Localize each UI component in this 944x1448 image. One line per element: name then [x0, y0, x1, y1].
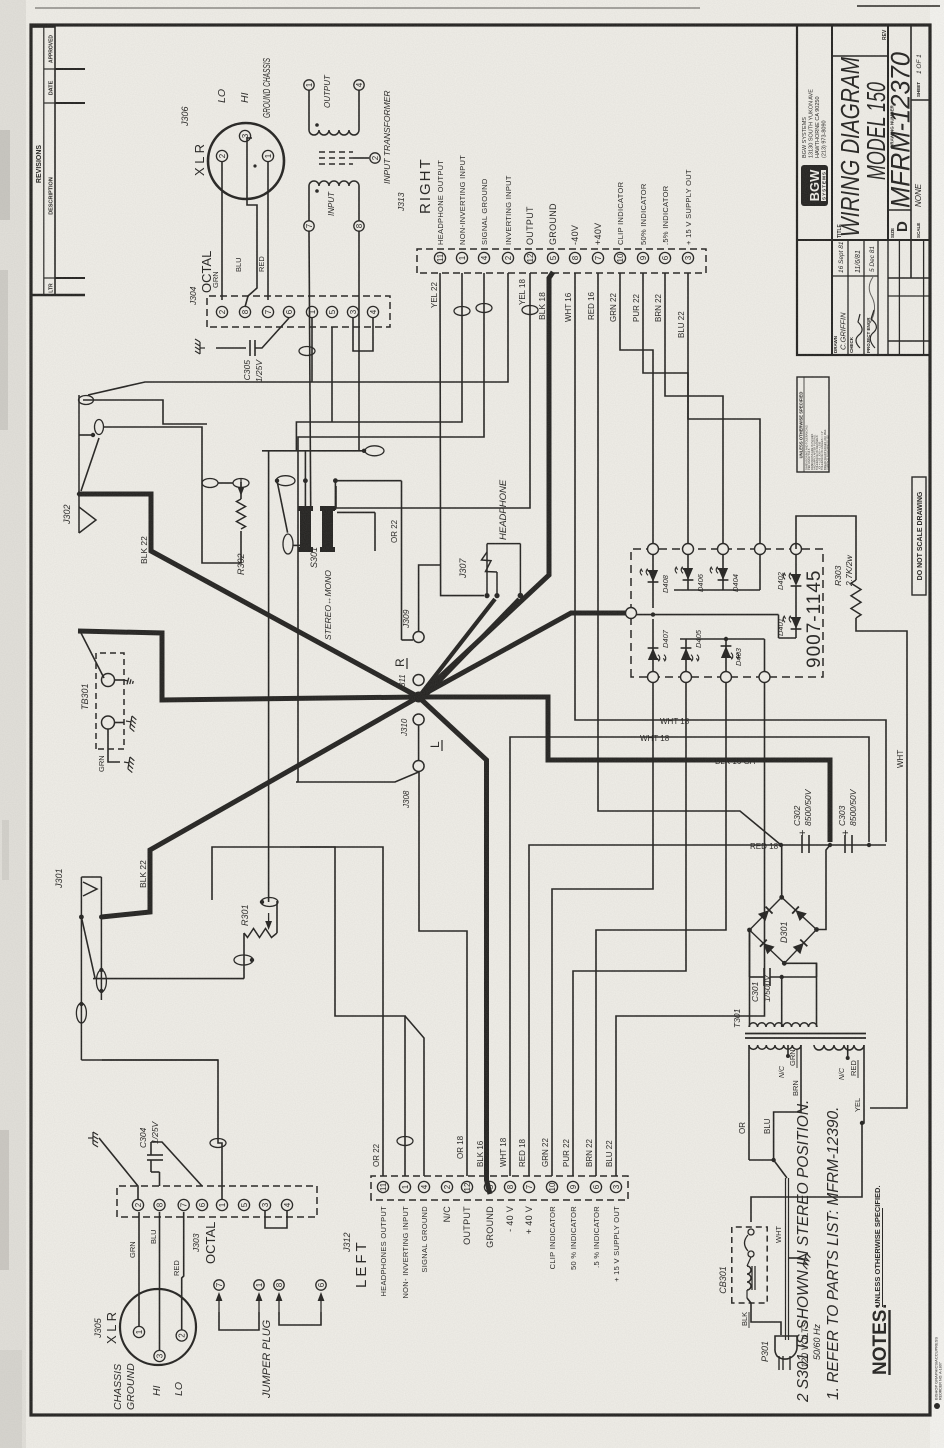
wire thick BLK22 star to J301: [101, 697, 418, 917]
switch S301 wafer A: [300, 509, 311, 549]
wire S301 to J313 pin7: [309, 231, 311, 509]
title block signature rows: [847, 240, 849, 355]
title block outline: [797, 25, 930, 355]
LED array center rail: [631, 614, 779, 616]
LED D404: [722, 555, 724, 591]
LED bottom exit wires: [796, 612, 823, 614]
J303 pin 1: [216, 1199, 227, 1210]
transformer J313 output winding: [309, 130, 359, 135]
left strip pin 11: [377, 1181, 388, 1192]
terminal strip LEFT outline: [371, 1176, 628, 1200]
wire J310 to J308: [418, 725, 420, 761]
right strip pin 1: [456, 252, 467, 263]
left strip pin 7: [523, 1181, 534, 1192]
wire TB301 tap diagonal: [80, 631, 104, 678]
J301 sleeve lug: [76, 1003, 86, 1023]
J302 switch arm: [81, 438, 99, 491]
R301 bottom lug: [243, 933, 245, 979]
T301 secondary center tap: [781, 977, 783, 1027]
title block lower grid: [898, 240, 900, 355]
LED D403: [725, 639, 727, 672]
connector J305 XLR: [120, 1289, 196, 1365]
LED D408: [652, 555, 654, 609]
wire left pin8 WHT18 bus: [510, 737, 869, 1176]
J304 pin1 lug chain: [311, 318, 313, 382]
wire right pin10 GRN22 to LED: [620, 273, 653, 549]
LED D402: [795, 555, 797, 575]
wire J302 tip chain: [83, 400, 207, 424]
J303 chassis ground: [99, 1138, 138, 1199]
revision table: [31, 27, 55, 295]
jumper plug arrows: [216, 1292, 223, 1312]
revision table row ticks: [55, 68, 85, 70]
S301 pole A: [304, 451, 306, 509]
capacitor C301: [749, 930, 751, 977]
J313 case pin 2: [353, 157, 369, 159]
left strip pin 8: [504, 1181, 515, 1192]
wire S301 pole B to J309 OR22: [401, 481, 403, 640]
circuit breaker CB301 outline: [732, 1227, 767, 1303]
R301 top lug: [276, 901, 278, 933]
T301 YEL lead: [863, 1045, 865, 1108]
jack J309: [413, 632, 424, 643]
TB301 GRN lead: [108, 729, 120, 762]
wire left pin7 RED18 bus: [529, 845, 886, 1176]
jumper plug pins: [214, 1280, 224, 1290]
J304 pin 3: [347, 306, 358, 317]
wire left pin9 PUR22 from LED: [573, 677, 686, 1176]
wire D301 positive output: [781, 845, 783, 897]
right strip pin 5: [547, 252, 558, 263]
T301 secondary winding: [749, 1023, 817, 1027]
J304 pin 6: [283, 306, 294, 317]
WHT cord wire: [785, 1178, 787, 1340]
R301 wiper arrow: [265, 913, 272, 930]
J304 pins 3-4 jumper: [353, 318, 373, 351]
TB301 ground 1: [115, 679, 125, 681]
S301 moving arm lug: [276, 476, 295, 486]
S301 arm: [277, 481, 288, 533]
jack J311: [413, 675, 424, 686]
P301 prongs: [778, 1356, 780, 1370]
T301 OR lead: [748, 1045, 750, 1160]
left strip pin 6: [590, 1181, 601, 1192]
T301 GRN tap: [787, 1045, 789, 1056]
scan edge smudges: [0, 130, 10, 220]
T301 primary winding B: [814, 1045, 864, 1050]
S301 lug: [365, 446, 384, 456]
left strip pin 10: [546, 1181, 557, 1192]
T301 BRN tap: [800, 1045, 802, 1089]
right strip pin 7: [592, 252, 603, 263]
wire right pin6 BRN22 to LED: [665, 273, 723, 549]
wire thick BLK16 star to left strip pin 5: [419, 697, 490, 1194]
left strip pin 4: [418, 1181, 429, 1192]
right strip pin 8: [569, 252, 580, 263]
R302 wires: [202, 483, 241, 563]
plug P301: [775, 1336, 797, 1359]
wire right pin7 RED16 bus: [598, 273, 781, 845]
J304 pin 2: [216, 306, 227, 317]
wire thick star to PSU ground bus BLK 16 GA: [421, 697, 830, 842]
resistor R303: [796, 516, 856, 580]
LED array cathode rail: [674, 589, 760, 591]
LED D407: [652, 619, 654, 672]
CB301 contacts: [748, 1229, 754, 1235]
LED array node circles: [648, 544, 659, 555]
S301 feed bus: [262, 450, 365, 452]
paper top edge line: [35, 7, 700, 9]
wire left pin4 run: [405, 1016, 424, 1176]
J313 input pin 8: [354, 221, 364, 231]
connector J303 octal outline: [117, 1186, 317, 1217]
LED D406: [687, 555, 689, 591]
wire J309 to YEL22: [419, 565, 440, 632]
jack J308: [413, 761, 424, 772]
right strip pin 10: [614, 252, 625, 263]
TB301 terminal 2: [102, 716, 115, 729]
J304 pin 5: [326, 306, 337, 317]
wire RED J306 pin1 to J304 pin7: [267, 162, 269, 300]
wire right area vertical: [88, 382, 248, 395]
right strip pin 2: [502, 252, 513, 263]
J313 output pin 1: [304, 80, 314, 90]
wire left pin3 BLU22 from LED: [616, 677, 765, 1176]
LED D401: [795, 617, 797, 638]
wire J313 pin8 to S301 lug: [358, 231, 360, 451]
jumper plug links: [219, 1312, 259, 1330]
wire GRN J305 pin1 to J303 pin2: [138, 1212, 140, 1326]
J303 pin 5: [238, 1199, 249, 1210]
scan noise overlay: [0, 0, 1, 1]
wire right pin2 inverting input: [248, 273, 508, 382]
wire R301 wiper bus to S301: [268, 451, 270, 847]
left strip pin 1: [399, 1181, 410, 1192]
wire thick pair star to J307: [419, 599, 495, 697]
BGW logo: [801, 165, 828, 206]
OR to BLU junction: [749, 1089, 801, 1160]
S301 wafer B hook: [337, 511, 375, 513]
star junction: [413, 692, 424, 703]
RED bus junction dots: [779, 843, 783, 847]
YEL wire to CB301: [751, 1108, 864, 1222]
J313 input pin 7: [304, 221, 314, 231]
J303 pin 6: [196, 1199, 207, 1210]
right strip pin 9: [637, 252, 648, 263]
CB301 BLK wire: [747, 1298, 781, 1335]
TB301 terminal 1: [102, 674, 115, 687]
wire thick star to TB301 corner: [78, 631, 419, 700]
wire J304 pin5 run: [331, 327, 333, 422]
wire left pin6 BRN22 from LED: [596, 677, 726, 1176]
wire right pin11 YEL22 to J307: [440, 273, 484, 596]
wire left pin10 GRN22 from LED: [552, 677, 653, 1176]
tolerance note block: [797, 377, 829, 472]
capacitor C305: [216, 347, 246, 349]
switch S301 wafer B: [322, 509, 333, 549]
T301 primary winding A: [749, 1045, 801, 1049]
right strip pin 11: [434, 252, 445, 263]
right strip pin 4: [478, 252, 489, 263]
wire thick star to LED array node: [419, 613, 627, 697]
T301 RED tap: [847, 1045, 849, 1058]
J303 pins 3-4 jumper: [264, 1199, 266, 1218]
left strip pin 12: [461, 1181, 472, 1192]
left strip pin 2: [441, 1181, 452, 1192]
wire thick BLK18 star to right strip pin 5: [419, 272, 553, 697]
capacitor C304: [159, 1172, 161, 1186]
R301 wire to J301 tip: [93, 978, 244, 980]
wire J308 to OR18 run: [298, 772, 419, 782]
TB301 ground 2: [115, 722, 125, 724]
wire right pin4 signal ground run: [298, 273, 484, 782]
J304 pin 7: [262, 306, 273, 317]
WHT wire to transformer area: [870, 770, 907, 1108]
wire GRN J306 pin2 to J304 pin2: [221, 162, 223, 300]
wire right pin1 to S301: [296, 273, 462, 451]
J304 pin 1: [306, 306, 317, 317]
wire thick BLK22 star to J302: [78, 494, 419, 697]
right strip pin 12: [524, 252, 535, 263]
J303 pin 4: [281, 1199, 292, 1210]
left strip pin 3: [610, 1181, 621, 1192]
wire right pin9 PUR22 to LED: [643, 273, 688, 549]
connector J304 octal outline: [207, 296, 390, 327]
wire left pin11 OR22 run: [212, 847, 383, 1176]
bridge rectifier D301: [758, 906, 773, 921]
J301 sleeve chain to octal: [81, 1059, 218, 1061]
right strip pin 6: [659, 252, 670, 263]
wire D301 negative output: [817, 845, 831, 930]
T301 core: [745, 1037, 866, 1039]
terminal board TB301 outline: [96, 653, 124, 749]
J303 pin1 lug wire to J301 chain: [102, 1060, 222, 1199]
do not scale drawing box: [912, 477, 926, 595]
wire BLU J303 pin8: [159, 1212, 161, 1350]
J303 pin 7: [178, 1199, 189, 1210]
left strip pin 5: [484, 1181, 495, 1192]
J313 core: [319, 163, 353, 165]
jack J310: [413, 714, 424, 725]
cord ground: [789, 1257, 800, 1259]
wire BLU J306 pin3 to J304 pin8: [245, 138, 257, 307]
terminal strip RIGHT outline: [417, 249, 706, 273]
wire right pin3 BLU22 to LED: [688, 273, 760, 549]
left strip pin 9: [567, 1181, 578, 1192]
J301 switch arm: [81, 917, 95, 978]
capacitor C303: [844, 835, 846, 853]
J304 pin 4: [367, 306, 378, 317]
wire right pin12 YEL18 to S301: [336, 273, 530, 508]
CB301 heater coil: [747, 1266, 751, 1290]
wire right pin4 vertical to J308: [296, 781, 298, 783]
S301 pole B: [333, 478, 338, 483]
R301 wire to OR22 junction: [268, 847, 270, 902]
LED D405: [685, 639, 687, 672]
connector J306 XLR: [208, 123, 284, 199]
right strip pin 3: [682, 252, 693, 263]
LED array anode rail: [680, 638, 765, 640]
J304 pin 8: [239, 306, 250, 317]
wire left pin12 OR18 from J308: [419, 772, 467, 1176]
J303 pin 8: [154, 1199, 165, 1210]
J303 pin 3: [259, 1199, 270, 1210]
transformer J313 input winding: [309, 181, 359, 186]
capacitor C302: [801, 835, 803, 853]
J313 output pin 4: [354, 80, 364, 90]
LED array outline 9007-1145: [631, 549, 823, 677]
J303 pin 2: [132, 1199, 143, 1210]
resistor R302: [240, 531, 242, 547]
wire left pin1 run: [300, 847, 405, 1176]
resistor R301: [244, 929, 277, 938]
wire RED J305 pin2 to J303 pin7: [182, 1212, 184, 1330]
wire right pin8 WHT16 bus: [575, 273, 886, 842]
